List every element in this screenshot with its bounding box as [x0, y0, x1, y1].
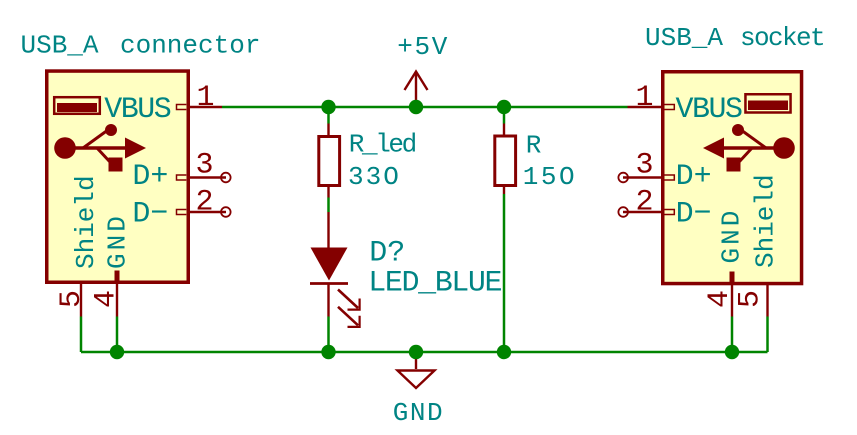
svg-text:connector: connector	[120, 31, 260, 61]
pin name D- right	[676, 198, 712, 232]
label R_led ref	[349, 130, 416, 160]
wire LED bottom	[327, 317, 330, 353]
pin name D+ left	[132, 160, 168, 194]
svg-text:R_led: R_led	[349, 130, 416, 160]
junction bottom LED	[321, 345, 335, 359]
svg-text:R: R	[526, 131, 542, 161]
svg-text:33O: 33O	[348, 162, 401, 192]
svg-text:Shield: Shield	[71, 175, 101, 269]
pin number 4 right	[703, 290, 737, 308]
pin number 5 left	[55, 290, 89, 308]
pin name GND left	[103, 213, 133, 269]
resistor R	[495, 124, 516, 195]
svg-text:1: 1	[635, 81, 653, 115]
wire R bottom	[503, 194, 506, 352]
wire left shield drop	[80, 317, 83, 353]
pin number 3 right	[635, 149, 653, 183]
label GND power	[393, 398, 444, 428]
pin 1 VBUS right	[628, 105, 675, 110]
label D? ref	[369, 236, 405, 270]
pin 5 Shield left	[80, 284, 82, 317]
pin name VBUS right	[676, 93, 743, 127]
label 150 value	[523, 162, 577, 192]
LED emission arrow 1	[338, 290, 360, 310]
label +5V	[397, 32, 449, 62]
svg-text:LED_BLUE: LED_BLUE	[368, 266, 501, 300]
pin number 5 right	[734, 290, 768, 308]
label socket title	[740, 23, 824, 53]
label R ref	[526, 131, 542, 161]
svg-text:D?: D?	[369, 236, 405, 270]
label LED_BLUE value	[368, 266, 501, 300]
svg-text:VBUS: VBUS	[104, 93, 171, 127]
resistor R_led	[319, 124, 340, 198]
connector USB_A right body	[663, 72, 802, 284]
svg-text:3: 3	[635, 149, 653, 183]
wire right shield drop	[766, 317, 769, 353]
wire right gnd drop	[731, 317, 734, 353]
usb trident icon right	[703, 124, 795, 172]
svg-text:USB_A: USB_A	[645, 23, 723, 53]
wire R_led top	[327, 107, 330, 124]
pin 1 VBUS left	[177, 105, 223, 110]
usb plug icon right	[745, 94, 790, 112]
svg-text:USB_A: USB_A	[21, 31, 99, 61]
svg-text:D−: D−	[676, 198, 712, 232]
junction top R	[497, 100, 511, 114]
pin 2 D- right	[618, 207, 674, 217]
junction top +5V	[409, 100, 423, 114]
svg-text:4: 4	[90, 290, 124, 308]
pin 4 GND right	[730, 272, 735, 317]
svg-text:2: 2	[195, 186, 213, 220]
svg-text:3: 3	[195, 149, 213, 183]
pin number 3 left	[195, 149, 213, 183]
pin name Shield left	[71, 175, 101, 269]
junction bottom right GND	[725, 345, 739, 359]
connector USB_A left body	[47, 71, 189, 282]
pin 5 Shield right	[766, 285, 768, 317]
pin name VBUS left	[104, 93, 171, 127]
junction bottom R	[497, 345, 511, 359]
power GND symbol	[398, 352, 435, 388]
svg-text:D−: D−	[132, 198, 168, 232]
svg-text:GND: GND	[717, 208, 747, 264]
junction top R_led	[321, 100, 335, 114]
label USB_A right title	[645, 23, 723, 53]
svg-text:Shield: Shield	[751, 174, 781, 268]
pin number 1 left	[196, 81, 214, 115]
pin number 2 right	[635, 186, 653, 220]
svg-text:GND: GND	[393, 398, 444, 428]
svg-text:D+: D+	[676, 160, 712, 194]
pin name GND right	[717, 208, 747, 264]
pin 2 D- left	[177, 207, 231, 217]
usb plug icon left	[54, 97, 100, 114]
svg-text:15O: 15O	[523, 162, 577, 192]
wire bottom GND bus	[81, 351, 768, 354]
pin name Shield right	[751, 174, 781, 268]
pin 4 GND left	[115, 271, 120, 317]
label USB_A left title	[21, 31, 99, 61]
power +5V symbol	[405, 72, 428, 108]
svg-text:5: 5	[55, 290, 89, 308]
svg-text:socket: socket	[740, 23, 824, 53]
svg-text:+5V: +5V	[397, 32, 449, 62]
pin name D- left	[132, 198, 168, 232]
pin 3 D+ right	[618, 173, 674, 183]
svg-text:VBUS: VBUS	[676, 93, 743, 127]
pin number 2 left	[195, 186, 213, 220]
svg-text:5: 5	[734, 290, 768, 308]
junction bottom GND symbol	[409, 345, 423, 359]
svg-text:D+: D+	[132, 160, 168, 194]
pin number 1 right	[635, 81, 653, 115]
svg-text:2: 2	[635, 186, 653, 220]
wire R_led to LED	[327, 198, 330, 213]
svg-text:4: 4	[703, 290, 737, 308]
LED emission arrow 2	[338, 307, 360, 327]
wire R top	[503, 107, 506, 124]
pin number 4 left	[90, 290, 124, 308]
LED D?	[310, 212, 348, 317]
usb trident icon left	[54, 124, 146, 172]
wire top VBUS bus	[222, 106, 628, 109]
label 330 value	[348, 162, 401, 192]
junction bottom left GND	[110, 345, 124, 359]
wire left gnd drop	[116, 317, 119, 353]
svg-text:GND: GND	[103, 213, 133, 269]
svg-text:1: 1	[196, 81, 214, 115]
pin name D+ right	[676, 160, 712, 194]
pin 3 D+ left	[177, 173, 231, 183]
label connector title	[120, 31, 260, 61]
